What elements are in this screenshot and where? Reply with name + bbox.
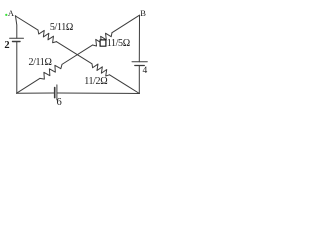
- label 11/5ohm: [107, 38, 130, 49]
- battery B4 short plate: [135, 65, 145, 67]
- wire: battery 2 bottom to corner D: [16, 42, 18, 94]
- wire: diag2 R4 to node B: [112, 15, 140, 32]
- label 4: [143, 66, 148, 76]
- battery B6 short plate: [54, 88, 56, 98]
- wire: battery 6 to corner C: [57, 92, 139, 95]
- green dot: [5, 14, 7, 16]
- wire: A down to battery 2 top: [16, 16, 17, 38]
- battery B6 long plate: [56, 85, 58, 100]
- resistor R2 2/11ohm zigzag: [40, 64, 62, 79]
- resistor R1 5/11ohm zigzag: [38, 30, 57, 43]
- node A: [15, 15, 16, 16]
- wire: diag1 R3 to corner C: [110, 75, 140, 94]
- resistor R4 11/5ohm zigzag: [93, 33, 113, 46]
- wire: diag2 D to resistor R2: [17, 78, 40, 93]
- label 5/11ohm: [50, 22, 73, 33]
- wire: bottom D to battery 6 left: [17, 92, 55, 94]
- resistor R3 11/2ohm zigzag: [92, 64, 110, 76]
- label 2: [4, 40, 9, 51]
- battery B2 short plate: [13, 41, 21, 43]
- label B: [140, 8, 146, 18]
- label 6: [57, 97, 62, 108]
- label 11/2ohm: [84, 76, 107, 87]
- wire: corner C up to battery 4 bottom: [138, 66, 140, 94]
- label 2/11ohm: [28, 57, 51, 68]
- wire: diag1 mid R1 to R3: [57, 42, 93, 64]
- battery B4 long plate: [132, 61, 147, 63]
- wire: diag1 A to resistor R1: [16, 16, 39, 30]
- label A: [8, 8, 14, 18]
- battery B2 long plate: [10, 37, 24, 39]
- wire: diag2 mid R2 to R4: [62, 45, 93, 64]
- wire: battery 4 top to node B: [138, 15, 140, 62]
- square marker on diag2: [100, 40, 106, 46]
